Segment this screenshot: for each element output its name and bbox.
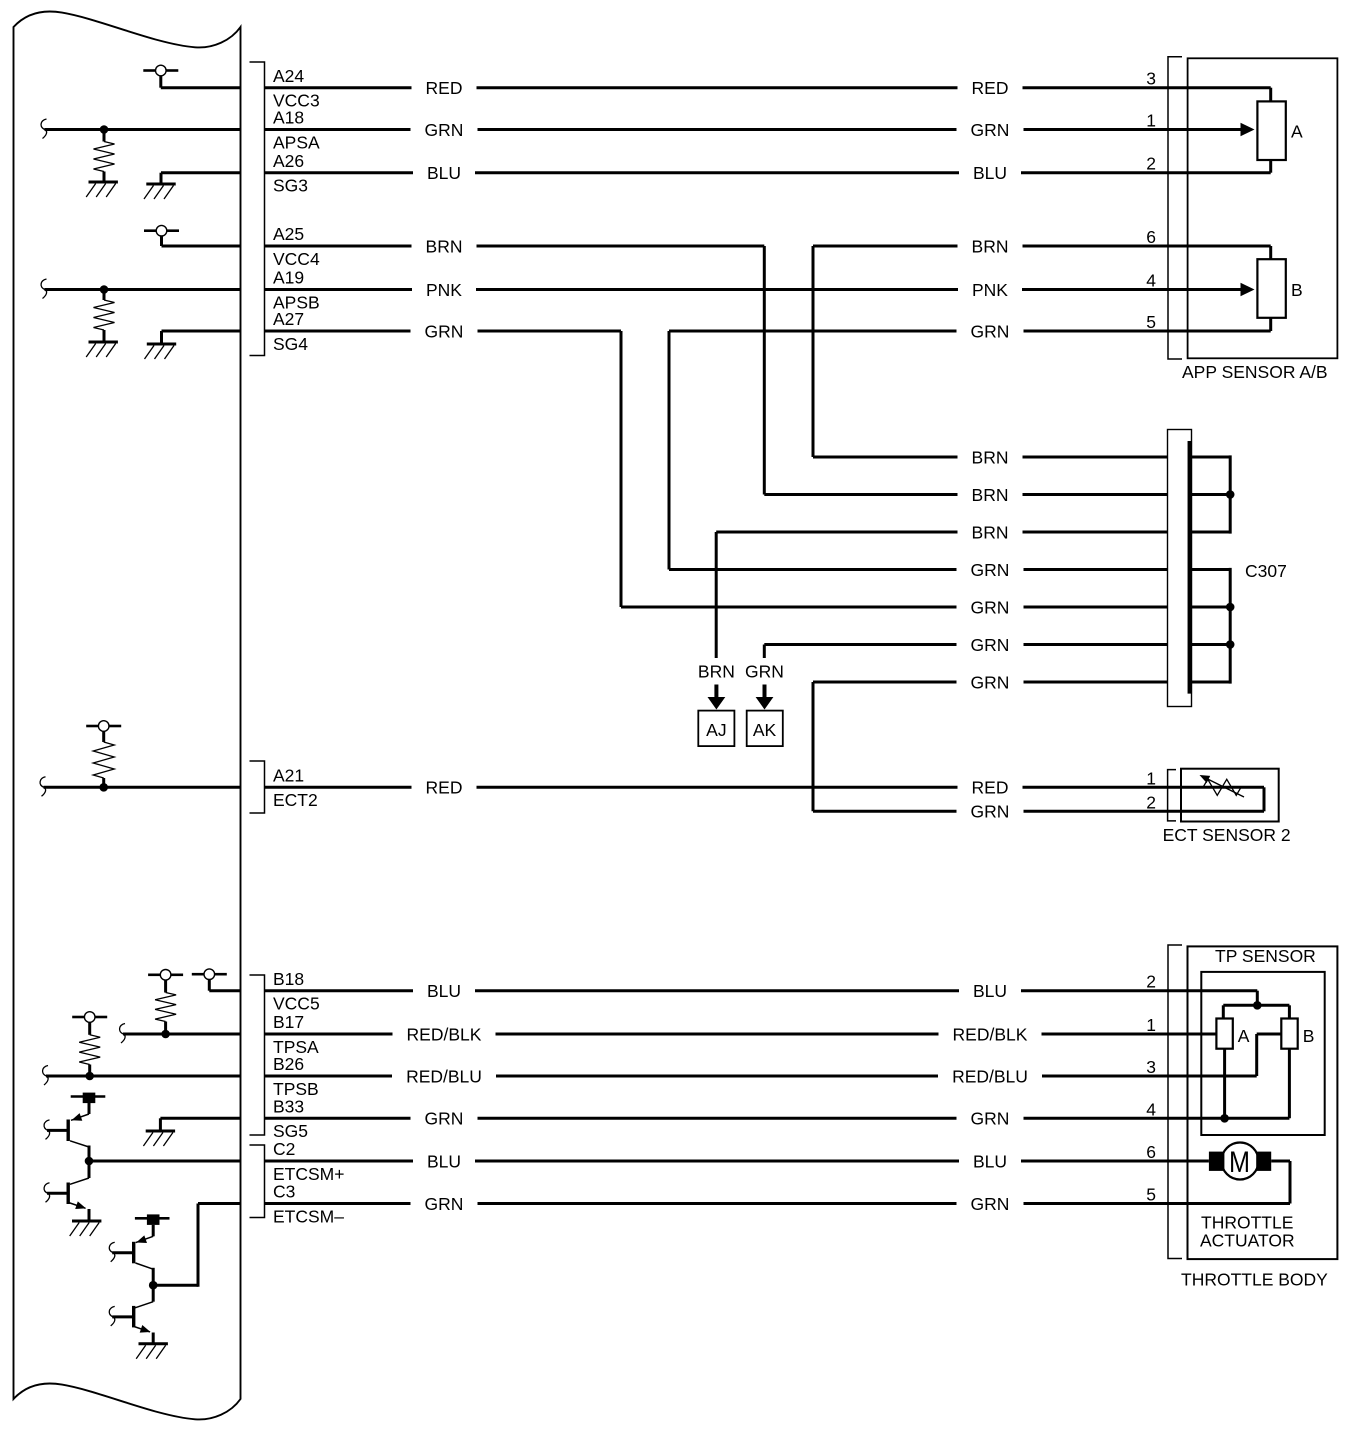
label BRN above splice AJ: [698, 662, 735, 682]
label GRN (C307 row 5): [971, 597, 1010, 617]
supply symbol with pull-up resistor for B17: [148, 970, 183, 1035]
wire A25 BRN (ECM to C307 splice drop): [265, 245, 765, 248]
svg-text:RED: RED: [426, 778, 463, 798]
junction dot C307 GRN bus row 5: [1226, 603, 1235, 612]
label AJ: [706, 720, 726, 740]
TP pot B bottom lead riser: [1288, 1049, 1291, 1119]
svg-text:SG3: SG3: [273, 176, 308, 196]
pin label C2/ETCSM+: [273, 1139, 344, 1184]
svg-text:SG4: SG4: [273, 334, 308, 354]
pin label A21/ECT2: [273, 766, 318, 811]
wire C2 BLU to throttle actuator pin 6: [265, 1160, 1209, 1163]
pin number 5 APP sensor: [1146, 312, 1156, 332]
svg-text:1: 1: [1146, 768, 1156, 788]
svg-text:A: A: [1291, 121, 1303, 141]
pin label B18/VCC5: [273, 969, 320, 1014]
label GRN above splice AK: [745, 662, 784, 682]
wire GRN drop from C307 row 6 to splice AK: [763, 645, 766, 659]
potentiometer A of APP sensor: [1257, 88, 1285, 173]
pin number 2 ECT sensor: [1146, 792, 1156, 812]
wire BRN drop from A25 run to C307 row 2: [763, 246, 766, 495]
svg-text:RED: RED: [972, 78, 1009, 98]
svg-text:ECT SENSOR 2: ECT SENSOR 2: [1163, 825, 1291, 845]
svg-text:GRN: GRN: [971, 597, 1010, 617]
supply symbol VCC3 (internal pull-up for A24): [143, 65, 178, 88]
svg-text:B33: B33: [273, 1097, 304, 1117]
label BLU (B18, left): [427, 981, 461, 1001]
ground SG4 symbol: [145, 331, 177, 359]
pin number 4 TP sensor: [1146, 1099, 1156, 1119]
svg-text:GRN: GRN: [971, 560, 1010, 580]
potentiometer B of TP sensor: [1281, 1019, 1297, 1049]
svg-text:RED/BLK: RED/BLK: [953, 1024, 1028, 1044]
ECM connector bracket pins B18-SG5: [250, 975, 265, 1135]
wire B26 RED/BLU to TP sensor pin 3 (wiper B): [265, 1034, 1282, 1076]
wire C3 GRN to throttle actuator pin 5: [265, 1202, 1291, 1205]
pin label A26/SG3: [273, 151, 308, 196]
wire B17 RED/BLK to TP sensor pin 1 (wiper A): [265, 1033, 1217, 1036]
label BRN (A25, left): [426, 236, 463, 256]
label GRN (C3, left): [425, 1194, 464, 1214]
label GRN (C307 row 6): [971, 635, 1010, 655]
svg-text:B17: B17: [273, 1012, 304, 1032]
label AK: [753, 720, 777, 740]
label GRN (C3, right): [971, 1194, 1010, 1214]
junction dot ETCSM+ node: [85, 1157, 94, 1166]
ECM module body outline (torn-edge box): [14, 12, 241, 1420]
svg-text:4: 4: [1146, 1099, 1156, 1119]
label RED/BLU (right): [952, 1066, 1028, 1086]
pin number 1 APP sensor: [1146, 111, 1156, 131]
label APP SENSOR A/B: [1182, 362, 1328, 382]
wire BRN C307 row 1: [813, 456, 1230, 459]
svg-text:PNK: PNK: [972, 280, 1008, 300]
svg-text:GRN: GRN: [425, 1194, 464, 1214]
svg-text:A26: A26: [273, 151, 304, 171]
wire A24 internal segment: [161, 86, 241, 89]
wire A26 internal segment: [161, 171, 241, 174]
pin number 2 APP sensor: [1146, 154, 1156, 174]
wire A25 internal segment: [162, 245, 241, 248]
label PNK (A19, left): [426, 280, 462, 300]
junction dot TP ground: [1220, 1114, 1229, 1123]
label THROTTLE ACTUATOR: [1200, 1213, 1295, 1251]
wire A27 GRN (ECM to C307 splice drop): [265, 331, 622, 607]
wire B18 internal segment: [209, 989, 240, 992]
ground SG5 symbol: [143, 1118, 175, 1146]
svg-text:ETCSM–: ETCSM–: [273, 1206, 344, 1226]
supply square for ETCSM+ high-side driver: [71, 1093, 106, 1104]
pin number 3 APP sensor: [1146, 69, 1156, 89]
ECT sensor 2 box: [1181, 769, 1279, 822]
label TP SENSOR: [1215, 946, 1316, 966]
pin label A18/APSA: [273, 108, 320, 153]
svg-text:BRN: BRN: [972, 447, 1009, 467]
svg-text:RED/BLU: RED/BLU: [952, 1066, 1028, 1086]
pin label A19/APSB: [273, 268, 320, 313]
wire BRN C307 row 3: [716, 531, 1230, 534]
svg-text:GRN: GRN: [971, 321, 1010, 341]
junction dot TP feed: [1253, 1001, 1262, 1010]
thermistor symbol in ECT sensor 2: [1200, 775, 1245, 797]
label BLU (B18, right): [973, 981, 1007, 1001]
svg-text:VCC5: VCC5: [273, 994, 320, 1014]
svg-text:BRN: BRN: [972, 522, 1009, 542]
supply square for ETCSM- high-side driver: [135, 1214, 170, 1225]
wire motor to pin 5 loop: [1271, 1161, 1290, 1204]
pin label B17/TPSA: [273, 1012, 319, 1057]
junction dot on A21: [99, 783, 108, 792]
wire A19 PNK to APP sensor pin 4 (wiper B): [265, 283, 1255, 297]
throttle body box: [1188, 946, 1338, 1259]
transistor Q4 (NPN low-side, ETCSM-): [109, 1285, 153, 1344]
svg-text:GRN: GRN: [971, 672, 1010, 692]
pin number 4 APP sensor: [1146, 271, 1156, 291]
arrow into splice AK: [756, 685, 774, 710]
resistor internal pull-down on A19: [94, 290, 115, 343]
svg-text:6: 6: [1146, 227, 1156, 247]
label A (TP pot A): [1238, 1026, 1250, 1046]
label PNK (A19, right): [972, 280, 1008, 300]
wire C2 internal segment: [89, 1160, 241, 1163]
svg-text:AJ: AJ: [706, 720, 726, 740]
svg-text:B26: B26: [273, 1054, 304, 1074]
label BRN (A25, right): [972, 236, 1009, 256]
label GRN (A18, left): [425, 120, 464, 140]
svg-text:SG5: SG5: [273, 1121, 308, 1141]
svg-text:BLU: BLU: [427, 1151, 461, 1171]
svg-text:2: 2: [1146, 154, 1156, 174]
label ECT SENSOR 2: [1163, 825, 1291, 845]
label C307: [1245, 561, 1287, 581]
junction dot on A19: [100, 285, 109, 294]
wire GRN C307 row 7: [813, 681, 1230, 684]
svg-text:A24: A24: [273, 66, 304, 86]
splice box AK: [747, 711, 783, 747]
wire BRN riser C307 pin to APP pin 6: [813, 246, 1271, 457]
label GRN (ECT return): [971, 802, 1010, 822]
pin label A25/VCC4: [273, 224, 320, 269]
svg-text:1: 1: [1146, 1015, 1156, 1035]
wire B33 internal segment: [160, 1117, 240, 1120]
svg-text:BRN: BRN: [698, 662, 735, 682]
TP sensor inner box: [1201, 972, 1324, 1135]
label GRN (B33, left): [425, 1109, 464, 1129]
wire A24 RED to APP sensor pin 3: [265, 86, 1271, 89]
svg-text:APP SENSOR A/B: APP SENSOR A/B: [1182, 362, 1328, 382]
svg-text:3: 3: [1146, 69, 1156, 89]
TP sensor top rail with feed: [1223, 1005, 1289, 1018]
wire GRN C307 row 5: [621, 606, 1230, 609]
transistor Q3 (PNP high-side, ETCSM-): [109, 1225, 153, 1285]
wire B33 GRN to TP sensor pin 4: [265, 1117, 1290, 1120]
label THROTTLE BODY: [1181, 1270, 1328, 1290]
APP sensor box: [1188, 58, 1338, 358]
pin number 1 ECT sensor: [1146, 768, 1156, 788]
label BLU (C2, right): [973, 1151, 1007, 1171]
svg-text:BRN: BRN: [972, 485, 1009, 505]
svg-text:GRN: GRN: [425, 1109, 464, 1129]
label B (APP pot B): [1291, 280, 1303, 300]
svg-text:C3: C3: [273, 1182, 295, 1202]
svg-text:4: 4: [1146, 271, 1156, 291]
svg-text:A25: A25: [273, 224, 304, 244]
svg-text:VCC4: VCC4: [273, 249, 320, 269]
label RED/BLK (right): [953, 1024, 1028, 1044]
label BLU (A26, left): [427, 163, 461, 183]
connector bracket APP sensor: [1168, 57, 1182, 359]
pin number 3 TP sensor: [1146, 1057, 1156, 1077]
svg-text:ACTUATOR: ACTUATOR: [1200, 1230, 1295, 1250]
connector bracket ECT sensor 2: [1168, 770, 1176, 821]
label GRN (C307 row 7): [971, 672, 1010, 692]
TP pot A bottom lead: [1223, 1049, 1226, 1119]
wire GRN riser C307 to APP pin 5: [669, 331, 1271, 570]
wire BRN C307 row 2: [764, 493, 1230, 496]
label BRN (C307 row 3): [972, 522, 1009, 542]
label BRN (C307 row 1): [972, 447, 1009, 467]
svg-text:BLU: BLU: [973, 981, 1007, 1001]
svg-text:A18: A18: [273, 108, 304, 128]
label GRN (B33, right): [971, 1109, 1010, 1129]
svg-text:1: 1: [1146, 111, 1156, 131]
supply symbol with pull-up resistor for B26: [72, 1012, 107, 1076]
pin label B33/SG5: [273, 1097, 308, 1142]
junction dot on B26: [85, 1072, 94, 1081]
svg-text:TP SENSOR: TP SENSOR: [1215, 946, 1316, 966]
svg-text:RED: RED: [972, 778, 1009, 798]
pin number 2 TP sensor: [1146, 972, 1156, 992]
label GRN (A27, left): [425, 321, 464, 341]
svg-text:BLU: BLU: [973, 1151, 1007, 1171]
wire GRN drop from C307 row 7 to ECT sensor return: [812, 682, 815, 811]
svg-text:GRN: GRN: [971, 120, 1010, 140]
ECM connector bracket pins A24-SG4: [250, 62, 265, 356]
wire A18 GRN to APP sensor pin 1 (wiper A): [265, 123, 1255, 137]
junction dot ETCSM- node: [149, 1281, 158, 1290]
svg-text:B18: B18: [273, 969, 304, 989]
label GRN (C307 row 4): [971, 560, 1010, 580]
label RED (A21, right): [972, 778, 1009, 798]
splice box AJ: [698, 711, 734, 747]
arrow into splice AJ: [708, 685, 726, 710]
connector bracket throttle body: [1168, 945, 1182, 1259]
connector C307 body: [1168, 430, 1192, 707]
label BLU (C2, left): [427, 1151, 461, 1171]
junction dot on A18: [100, 125, 109, 134]
svg-text:BRN: BRN: [972, 236, 1009, 256]
wire A27 internal segment: [162, 330, 241, 333]
ground for Q4 emitter: [136, 1344, 168, 1359]
ground SG3 symbol: [144, 173, 176, 199]
svg-text:A19: A19: [273, 268, 304, 288]
label RED (A24, left): [426, 78, 463, 98]
svg-text:BRN: BRN: [426, 236, 463, 256]
svg-text:5: 5: [1146, 312, 1156, 332]
wire B17 internal segment with continuation hook: [120, 1024, 241, 1044]
label GRN (A27, right): [971, 321, 1010, 341]
wire GRN C307 row 4: [669, 568, 1230, 571]
wire A26 BLU to APP sensor pin 2: [265, 171, 1271, 174]
supply symbol VCC4 (internal pull-up for A25): [144, 225, 179, 246]
junction dot C307 GRN bus row 6: [1226, 640, 1235, 649]
svg-text:GRN: GRN: [971, 635, 1010, 655]
wire BRN drop from C307 row 3 to splice AJ: [715, 532, 718, 658]
svg-text:A27: A27: [273, 309, 304, 329]
pin number 1 TP sensor: [1146, 1015, 1156, 1035]
svg-text:C307: C307: [1245, 561, 1287, 581]
wire ETCSM- node to C3 pin riser: [153, 1204, 198, 1287]
label BRN (C307 row 2): [972, 485, 1009, 505]
svg-text:GRN: GRN: [971, 1194, 1010, 1214]
svg-text:3: 3: [1146, 1057, 1156, 1077]
wire A21 RED to ECT sensor 2 pin 1: [265, 786, 1265, 789]
motor M of throttle actuator: [1209, 1143, 1271, 1180]
transistor Q2 (NPN low-side, ETCSM+): [44, 1161, 89, 1221]
junction dot C307 BRN bus: [1226, 490, 1235, 499]
potentiometer B of APP sensor: [1257, 246, 1285, 331]
svg-text:A21: A21: [273, 766, 304, 786]
pin label A24/VCC3: [273, 66, 320, 111]
potentiometer A of TP sensor: [1216, 1019, 1232, 1049]
resistor internal pull-down on A18: [94, 130, 115, 183]
label RED (A21, left): [426, 778, 463, 798]
svg-text:ECT2: ECT2: [273, 790, 318, 810]
supply symbol VCC5 feed (right circle) for B18: [192, 969, 227, 991]
ground for A19 pull-down resistor: [86, 342, 118, 357]
svg-text:GRN: GRN: [971, 802, 1010, 822]
label BLU (A26, right): [973, 163, 1007, 183]
supply symbol with pull-up resistor for A21 (ECT2): [86, 721, 121, 788]
ECM connector bracket pin A21: [250, 761, 265, 813]
svg-text:GRN: GRN: [971, 1109, 1010, 1129]
ground for A18 pull-down resistor: [86, 182, 118, 197]
svg-text:RED: RED: [426, 78, 463, 98]
svg-text:PNK: PNK: [426, 280, 462, 300]
ground for Q2 emitter: [70, 1221, 102, 1236]
wire GRN ECT sensor 2 pin 2 return: [813, 787, 1264, 811]
pin label C3/ETCSM-: [273, 1182, 344, 1227]
svg-text:AK: AK: [753, 720, 777, 740]
pin label B26/TPSB: [273, 1054, 319, 1099]
svg-text:RED/BLK: RED/BLK: [407, 1024, 482, 1044]
pin number 6 throttle actuator: [1146, 1142, 1156, 1162]
svg-text:5: 5: [1146, 1185, 1156, 1205]
svg-text:GRN: GRN: [425, 120, 464, 140]
svg-text:6: 6: [1146, 1142, 1156, 1162]
label A (APP pot A): [1291, 121, 1303, 141]
svg-text:THROTTLE BODY: THROTTLE BODY: [1181, 1270, 1328, 1290]
C307 right bus GRN (rows 4-7): [1229, 568, 1232, 684]
label GRN (A18, right): [971, 120, 1010, 140]
label RED/BLU (left): [406, 1066, 482, 1086]
svg-text:GRN: GRN: [745, 662, 784, 682]
ECM connector bracket pins C2-C3: [250, 1145, 265, 1218]
transistor Q1 (PNP high-side, ETCSM+): [44, 1103, 89, 1161]
wire A19 internal segment with continuation hook: [41, 279, 240, 299]
svg-text:BLU: BLU: [973, 163, 1007, 183]
wire B26 internal segment with continuation hook: [43, 1066, 241, 1086]
svg-text:APSA: APSA: [273, 132, 320, 152]
svg-text:BLU: BLU: [427, 163, 461, 183]
svg-text:B: B: [1303, 1026, 1315, 1046]
svg-text:GRN: GRN: [425, 321, 464, 341]
pin label A27/SG4: [273, 309, 308, 354]
label RED (A24, right): [972, 78, 1009, 98]
junction dot on B17: [161, 1030, 170, 1039]
svg-text:2: 2: [1146, 792, 1156, 812]
pin number 5 throttle actuator: [1146, 1185, 1156, 1205]
svg-text:M: M: [1229, 1146, 1250, 1179]
wire C3 internal segment: [198, 1202, 241, 1205]
label B (TP pot B): [1303, 1026, 1315, 1046]
wire A18 internal segment with continuation hook: [41, 119, 240, 139]
svg-text:C2: C2: [273, 1139, 295, 1159]
wire B18 BLU to TP sensor pin 2: [265, 991, 1258, 1006]
svg-text:B: B: [1291, 280, 1303, 300]
pin number 6 APP sensor: [1146, 227, 1156, 247]
svg-text:2: 2: [1146, 972, 1156, 992]
C307 right bus BRN (rows 1-3): [1229, 455, 1232, 533]
wire GRN C307 row 6: [764, 643, 1230, 646]
svg-text:A: A: [1238, 1026, 1250, 1046]
wire A21 internal segment with continuation hook: [40, 777, 240, 797]
svg-text:BLU: BLU: [427, 981, 461, 1001]
label RED/BLK (left): [407, 1024, 482, 1044]
svg-text:RED/BLU: RED/BLU: [406, 1066, 482, 1086]
